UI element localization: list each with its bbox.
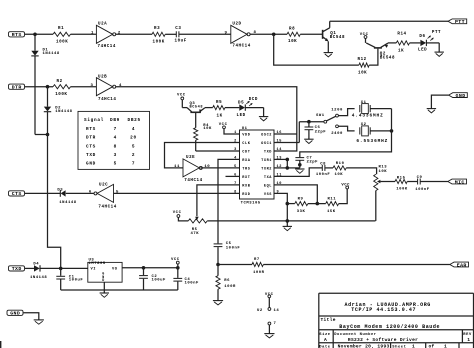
- svg-text:DTR: DTR: [12, 85, 22, 91]
- svg-text:RXD: RXD: [242, 193, 250, 197]
- wire pin13 to pin12: [286, 159, 288, 168]
- wire CTS to D3: [25, 192, 60, 194]
- svg-text:R8: R8: [289, 28, 295, 32]
- wire GND right: [431, 95, 448, 108]
- svg-text:R1: R1: [58, 27, 64, 31]
- svg-text:DB9: DB9: [110, 118, 120, 123]
- resistor R5: [213, 106, 225, 110]
- wire X1 to right rail: [370, 108, 391, 110]
- wire U2D out to R8: [250, 33, 287, 35]
- wire TXR1 pin13 stub: [274, 158, 287, 160]
- svg-text:DTR: DTR: [86, 136, 96, 141]
- svg-text:1N4148: 1N4148: [55, 110, 72, 114]
- capacitor C9: [417, 179, 419, 185]
- svg-text:8: 8: [234, 191, 237, 195]
- svg-text:VCC: VCC: [341, 184, 350, 188]
- svg-text:EAR: EAR: [457, 262, 467, 268]
- power VCC divider: [346, 186, 349, 189]
- diode D1: [34, 34, 36, 51]
- svg-text:RTS: RTS: [12, 32, 22, 38]
- svg-text:Size: Size: [319, 332, 330, 337]
- svg-text:LM7805: LM7805: [89, 262, 106, 266]
- svg-text:100R: 100R: [224, 285, 236, 289]
- svg-text:R15: R15: [397, 177, 406, 181]
- wire pot R13 to rail: [375, 191, 377, 221]
- svg-text:47K: 47K: [191, 232, 200, 236]
- resistor R8: [287, 32, 300, 36]
- wire U3 gnd: [103, 282, 105, 293]
- IC U1 TCM3105: [240, 130, 275, 199]
- wire EQL pin10 to divider: [274, 185, 317, 204]
- wire D6 to ground: [426, 42, 439, 44]
- svg-text:100K: 100K: [153, 40, 165, 44]
- terminal EAR: [450, 262, 469, 267]
- svg-text:Document Number: Document Number: [334, 332, 376, 337]
- capacitor C5: [214, 243, 223, 245]
- svg-text:100nF: 100nF: [185, 281, 200, 285]
- wire R1 to U2A: [71, 33, 97, 35]
- capacitor C1: [60, 268, 62, 275]
- terminal MIC: [448, 179, 467, 184]
- LED D5 DCD: [239, 104, 245, 110]
- svg-text:1: 1: [467, 337, 470, 343]
- inverter U2B: [96, 78, 112, 96]
- svg-text:VCC: VCC: [177, 93, 186, 97]
- wire VCC to U2 pin14: [268, 298, 270, 308]
- svg-text:100R: 100R: [253, 271, 265, 275]
- wire R3 to C3: [165, 33, 176, 35]
- svg-text:GND: GND: [10, 311, 20, 317]
- svg-text:5: 5: [114, 162, 117, 167]
- node C4 top: [176, 266, 180, 270]
- wire throw1 to X1: [338, 109, 354, 116]
- svg-text:PTT: PTT: [432, 31, 441, 35]
- svg-text:R7: R7: [254, 258, 260, 262]
- ground GND right: [427, 108, 436, 110]
- svg-text:C3: C3: [175, 27, 181, 31]
- svg-text:33K: 33K: [297, 210, 306, 214]
- pin 14 U2: [268, 308, 271, 311]
- svg-text:GND: GND: [456, 93, 466, 99]
- svg-text:100uF: 100uF: [69, 279, 84, 283]
- wire OSC1 pin15 stub: [274, 142, 299, 144]
- op-amp/inverter U2A: [96, 25, 112, 43]
- svg-text:BC548: BC548: [190, 105, 204, 109]
- capacitor C3: [175, 31, 177, 37]
- wire Q1 collector up: [329, 21, 331, 28]
- wire D2 down: [47, 112, 49, 135]
- svg-text:VCC: VCC: [219, 123, 228, 127]
- LED D6 PTT: [420, 40, 426, 46]
- svg-text:11: 11: [174, 165, 180, 169]
- resistor R7: [252, 262, 263, 266]
- svg-text:74HC14: 74HC14: [184, 179, 202, 183]
- terminal DTR: [9, 84, 25, 89]
- svg-text:OSC2: OSC2: [261, 133, 272, 137]
- svg-text:LED: LED: [418, 48, 427, 52]
- wire RXT stub pin6: [226, 175, 240, 177]
- capacitor C8: [321, 165, 323, 171]
- svg-text:DCD: DCD: [249, 98, 258, 102]
- title block: [319, 292, 474, 294]
- wire CDT pin3: [196, 150, 240, 152]
- svg-text:CTS: CTS: [12, 191, 22, 197]
- svg-text:U2D: U2D: [232, 23, 241, 27]
- svg-text:VO: VO: [112, 268, 118, 272]
- wire RXD from chip to U2C: [114, 192, 240, 194]
- svg-text:D6: D6: [419, 35, 425, 39]
- svg-text:VCC: VCC: [173, 211, 182, 215]
- node rail junction: [46, 133, 50, 137]
- wire RXB pin7 to pot wiper: [197, 185, 240, 216]
- ground U3: [100, 292, 109, 294]
- svg-text:22pF: 22pF: [315, 131, 327, 135]
- wire VCC to VDD pin1: [224, 129, 240, 134]
- resistor R4: [195, 112, 197, 127]
- ground D5: [259, 116, 268, 118]
- svg-text:U2C: U2C: [99, 183, 108, 187]
- wire R4 to CDT: [195, 140, 197, 151]
- capacitor C2: [143, 268, 145, 275]
- table signal/DB9/DB25: [78, 111, 150, 169]
- svg-text:6.5536MHZ: 6.5536MHZ: [356, 139, 388, 144]
- svg-text:TXD: TXD: [86, 153, 96, 158]
- node power input: [59, 267, 63, 271]
- svg-text:10uF: 10uF: [175, 39, 187, 43]
- wire VCC to Q3: [181, 100, 183, 108]
- inverter U2E: [183, 159, 199, 177]
- svg-text:1K: 1K: [217, 115, 223, 119]
- ground D6: [435, 51, 444, 53]
- svg-text:U2B: U2B: [98, 75, 107, 79]
- svg-text:10K: 10K: [379, 170, 388, 174]
- diode D3: [59, 190, 61, 197]
- svg-text:SW1: SW1: [316, 114, 325, 118]
- svg-text:5: 5: [132, 144, 135, 149]
- svg-text:1: 1: [412, 344, 415, 348]
- svg-text:22pF: 22pF: [307, 161, 319, 165]
- wire RXA pin4 to C5: [218, 159, 240, 243]
- svg-text:3: 3: [234, 148, 237, 152]
- svg-text:1200: 1200: [331, 109, 343, 113]
- wire to R9: [287, 203, 295, 205]
- node pin12: [286, 166, 290, 170]
- svg-text:TXD: TXD: [12, 266, 22, 272]
- svg-text:GND: GND: [86, 162, 96, 167]
- wire PTT line: [330, 20, 448, 22]
- svg-text:10K: 10K: [335, 173, 344, 177]
- svg-text:TCM3105: TCM3105: [241, 201, 261, 205]
- capacitor C4: [177, 268, 179, 278]
- svg-text:VCC: VCC: [265, 293, 274, 297]
- svg-text:8: 8: [114, 144, 117, 149]
- svg-text:1: 1: [444, 344, 447, 348]
- svg-text:74HC14: 74HC14: [98, 45, 116, 49]
- sheet corner mark: [0, 341, 2, 348]
- wire crystals to C7: [300, 109, 392, 158]
- svg-text:7: 7: [114, 127, 117, 132]
- svg-text:D3: D3: [57, 188, 63, 192]
- svg-text:November 20, 1993: November 20, 1993: [338, 344, 390, 348]
- svg-text:20: 20: [130, 136, 137, 141]
- svg-text:RXB: RXB: [242, 184, 250, 188]
- svg-text:1N4148: 1N4148: [59, 201, 76, 205]
- wire TXR2 pin12 stub: [274, 167, 287, 169]
- svg-text:VCC: VCC: [171, 258, 180, 262]
- svg-text:TXR2: TXR2: [261, 167, 272, 171]
- svg-text:2: 2: [234, 140, 237, 144]
- svg-text:Sheet: Sheet: [392, 345, 406, 348]
- wire GND terminal: [24, 313, 39, 320]
- svg-text:9: 9: [225, 31, 228, 35]
- transistor Q3: [190, 111, 201, 113]
- wire R2 to U2B: [71, 86, 97, 88]
- svg-text:C5: C5: [226, 242, 232, 246]
- wire R8 to Q1 base: [300, 33, 322, 35]
- regulator U3 LM7805: [88, 262, 122, 282]
- svg-text:1K: 1K: [398, 50, 404, 54]
- wire D3 to U2C: [66, 192, 94, 194]
- svg-text:of: of: [429, 344, 435, 348]
- transistor Q2: [374, 47, 382, 49]
- svg-text:7: 7: [132, 162, 135, 167]
- svg-text:RXT: RXT: [242, 176, 250, 180]
- wire R6 to gnd: [217, 289, 219, 300]
- svg-text:5: 5: [234, 165, 237, 169]
- node R9 left: [286, 202, 290, 206]
- wire OSC1 up to SW1 pole: [298, 122, 300, 143]
- resistor R6: [217, 265, 219, 276]
- svg-text:CTS: CTS: [86, 144, 96, 149]
- resistor R3: [152, 32, 165, 36]
- wire OSC2 pin16 stub: [274, 133, 297, 135]
- inverter U2D: [231, 25, 247, 43]
- svg-text:REV: REV: [463, 333, 472, 337]
- diode D2: [47, 87, 49, 107]
- wire U2A out to R3: [116, 33, 152, 35]
- ground GND terminal: [34, 319, 44, 321]
- svg-text:X2: X2: [361, 123, 367, 127]
- transistor Q1: [322, 30, 324, 39]
- svg-text:R13: R13: [379, 165, 388, 169]
- power VCC U2: [268, 295, 271, 298]
- resistor R15: [395, 179, 407, 183]
- wire D4 to U3: [40, 267, 87, 269]
- wire Q2 collector to VCC: [365, 38, 367, 43]
- wire rail join: [35, 134, 48, 136]
- node RTS/D1 junction: [33, 33, 37, 37]
- svg-text:U1: U1: [242, 127, 248, 131]
- resistor R14: [396, 41, 409, 45]
- svg-text:7: 7: [274, 322, 277, 326]
- node EQL divider: [316, 202, 320, 206]
- wire throw2 to X2: [338, 126, 354, 131]
- node rail gnd: [286, 219, 290, 223]
- svg-text:C9: C9: [417, 176, 423, 180]
- wire CLK pin2 to U2E: [165, 143, 240, 168]
- resistor R12: [359, 63, 369, 67]
- svg-text:1: 1: [91, 31, 94, 35]
- LED arrows D6: [428, 36, 431, 39]
- svg-text:100K: 100K: [396, 187, 408, 191]
- svg-text:R3: R3: [154, 27, 160, 31]
- wire RTS to R1: [25, 33, 53, 35]
- svg-text:R11: R11: [328, 198, 337, 202]
- wiper arrow R5 pot: [195, 217, 199, 220]
- svg-text:2400: 2400: [331, 132, 343, 136]
- ground R6: [213, 300, 223, 302]
- resistor R11: [326, 202, 339, 206]
- ground Q1 emitter: [324, 52, 333, 54]
- svg-text:4: 4: [132, 127, 135, 132]
- wire R9 to R11: [308, 203, 326, 205]
- wire pin12 to C7 gnd: [287, 167, 300, 169]
- svg-text:PTT: PTT: [455, 19, 465, 25]
- wire R12 to Q2 base: [369, 49, 378, 66]
- svg-text:1N4148: 1N4148: [43, 52, 60, 56]
- svg-text:Title: Title: [321, 317, 336, 323]
- node C2 top: [142, 266, 146, 270]
- svg-text:3: 3: [114, 153, 117, 158]
- power VCC regulator out: [176, 261, 179, 264]
- svg-text:R5: R5: [216, 101, 222, 105]
- svg-text:2: 2: [132, 153, 135, 158]
- svg-text:C8: C8: [320, 162, 326, 166]
- wire VSS pin9 to ground: [274, 193, 287, 226]
- svg-text:100nF: 100nF: [226, 247, 241, 251]
- svg-text:R9: R9: [298, 198, 304, 202]
- potentiometer R5 47K: [188, 219, 207, 223]
- wire Q2 emitter to R14: [388, 42, 396, 44]
- svg-text:RXA: RXA: [242, 159, 250, 163]
- svg-text:4: 4: [114, 136, 117, 141]
- svg-text:LED: LED: [237, 114, 246, 118]
- svg-text:14: 14: [277, 148, 283, 152]
- svg-text:EQL: EQL: [264, 184, 272, 188]
- svg-text:R14: R14: [397, 33, 406, 37]
- capacitor C7: [295, 157, 304, 159]
- wire to R12: [274, 34, 359, 65]
- capacitor C6: [308, 122, 310, 127]
- wire C8 to R10: [325, 167, 333, 169]
- svg-text:74HC14: 74HC14: [98, 206, 116, 210]
- svg-text:BC548: BC548: [330, 36, 345, 40]
- wire pole line: [299, 121, 324, 123]
- svg-text:D5: D5: [238, 102, 244, 106]
- wire R15 to C9: [407, 181, 417, 183]
- node C6 junction: [307, 120, 311, 124]
- wire U2E out to TRS pin5: [200, 167, 239, 169]
- node crystal right: [390, 129, 394, 133]
- svg-text:U2A: U2A: [98, 23, 107, 27]
- svg-text:4.4336MHZ: 4.4336MHZ: [352, 113, 384, 118]
- svg-text:X1: X1: [361, 101, 367, 105]
- wire R7 to EAR: [263, 264, 449, 266]
- svg-text:100uF: 100uF: [152, 278, 167, 282]
- ground C7/TXR: [295, 168, 304, 170]
- svg-text:74HC14: 74HC14: [232, 44, 250, 48]
- svg-text:D4: D4: [33, 262, 39, 266]
- node EAR junction: [216, 263, 220, 267]
- svg-text:TXD: TXD: [264, 150, 272, 154]
- wire power rail down to TXD row: [48, 135, 61, 269]
- svg-text:VSS: VSS: [264, 193, 272, 197]
- svg-text:A: A: [324, 337, 327, 343]
- terminal GND right: [449, 93, 468, 98]
- potentiometer R13: [374, 174, 378, 190]
- wire Q3 to R5: [205, 107, 213, 109]
- svg-text:U2E: U2E: [186, 156, 195, 160]
- terminal PTT: [448, 19, 467, 24]
- diode D4: [34, 265, 40, 271]
- wire D1 down rail: [34, 56, 36, 135]
- LED arrows D5: [246, 101, 249, 104]
- power VCC Q3: [181, 97, 184, 100]
- svg-text:MIC: MIC: [455, 179, 465, 185]
- wire wiper to R15: [381, 181, 396, 183]
- svg-text:CLK: CLK: [242, 142, 250, 146]
- wire C3 to U2D: [179, 33, 231, 35]
- wire DTR to R2: [25, 86, 53, 88]
- inverter U2C (left-pointing): [97, 184, 113, 202]
- power VCC VDD: [223, 126, 226, 129]
- power VCC Q2: [364, 36, 367, 39]
- svg-text:10K: 10K: [358, 71, 367, 75]
- wire R11 to VCC: [339, 189, 348, 204]
- terminal CTS: [9, 191, 25, 196]
- svg-text:100nF: 100nF: [415, 188, 430, 192]
- resistor R9: [295, 202, 308, 206]
- node C7 bottom: [298, 163, 302, 167]
- wire VO to VCC: [122, 267, 178, 269]
- ground U2 pin7: [264, 333, 274, 335]
- svg-text:DB25: DB25: [128, 118, 141, 123]
- svg-text:10K: 10K: [288, 40, 297, 44]
- crystal X2: [359, 127, 361, 134]
- wire D5 to gnd: [246, 107, 264, 109]
- wire junction to R7: [218, 264, 252, 266]
- wire U2 pin7 to gnd: [268, 325, 270, 333]
- svg-text:CDT: CDT: [242, 150, 250, 154]
- svg-text:TXA: TXA: [264, 176, 272, 180]
- wire TXD to D4: [25, 267, 34, 269]
- terminal GND left: [7, 310, 23, 315]
- svg-text:TRS: TRS: [242, 167, 250, 171]
- svg-text:RTS: RTS: [86, 127, 96, 132]
- svg-text:BC548: BC548: [380, 56, 395, 60]
- svg-text:100K: 100K: [55, 93, 67, 97]
- wire Q1 emitter down: [327, 41, 329, 52]
- svg-text:R12: R12: [358, 58, 367, 62]
- wire X2 to right rail: [370, 130, 391, 132]
- svg-text:10K: 10K: [203, 127, 212, 131]
- node DTR/D2 junction: [46, 85, 50, 89]
- svg-text:BayCom Modem 1200/2400 Baude: BayCom Modem 1200/2400 Baude: [339, 324, 440, 330]
- svg-text:U2: U2: [257, 309, 263, 313]
- svg-text:VI: VI: [91, 268, 97, 272]
- terminal TXD: [9, 266, 25, 271]
- resistor R2: [53, 85, 71, 89]
- ground C6: [304, 138, 313, 140]
- svg-text:RS232 + Software Driver: RS232 + Software Driver: [348, 337, 418, 343]
- svg-text:R10: R10: [336, 162, 345, 166]
- wire R14 to D6: [410, 42, 421, 44]
- svg-text:100K: 100K: [56, 40, 68, 44]
- svg-text:74HC14: 74HC14: [98, 98, 116, 102]
- switch SW1: [324, 120, 327, 123]
- wire R10 to pot R13: [346, 168, 376, 174]
- svg-text:15K: 15K: [327, 210, 336, 214]
